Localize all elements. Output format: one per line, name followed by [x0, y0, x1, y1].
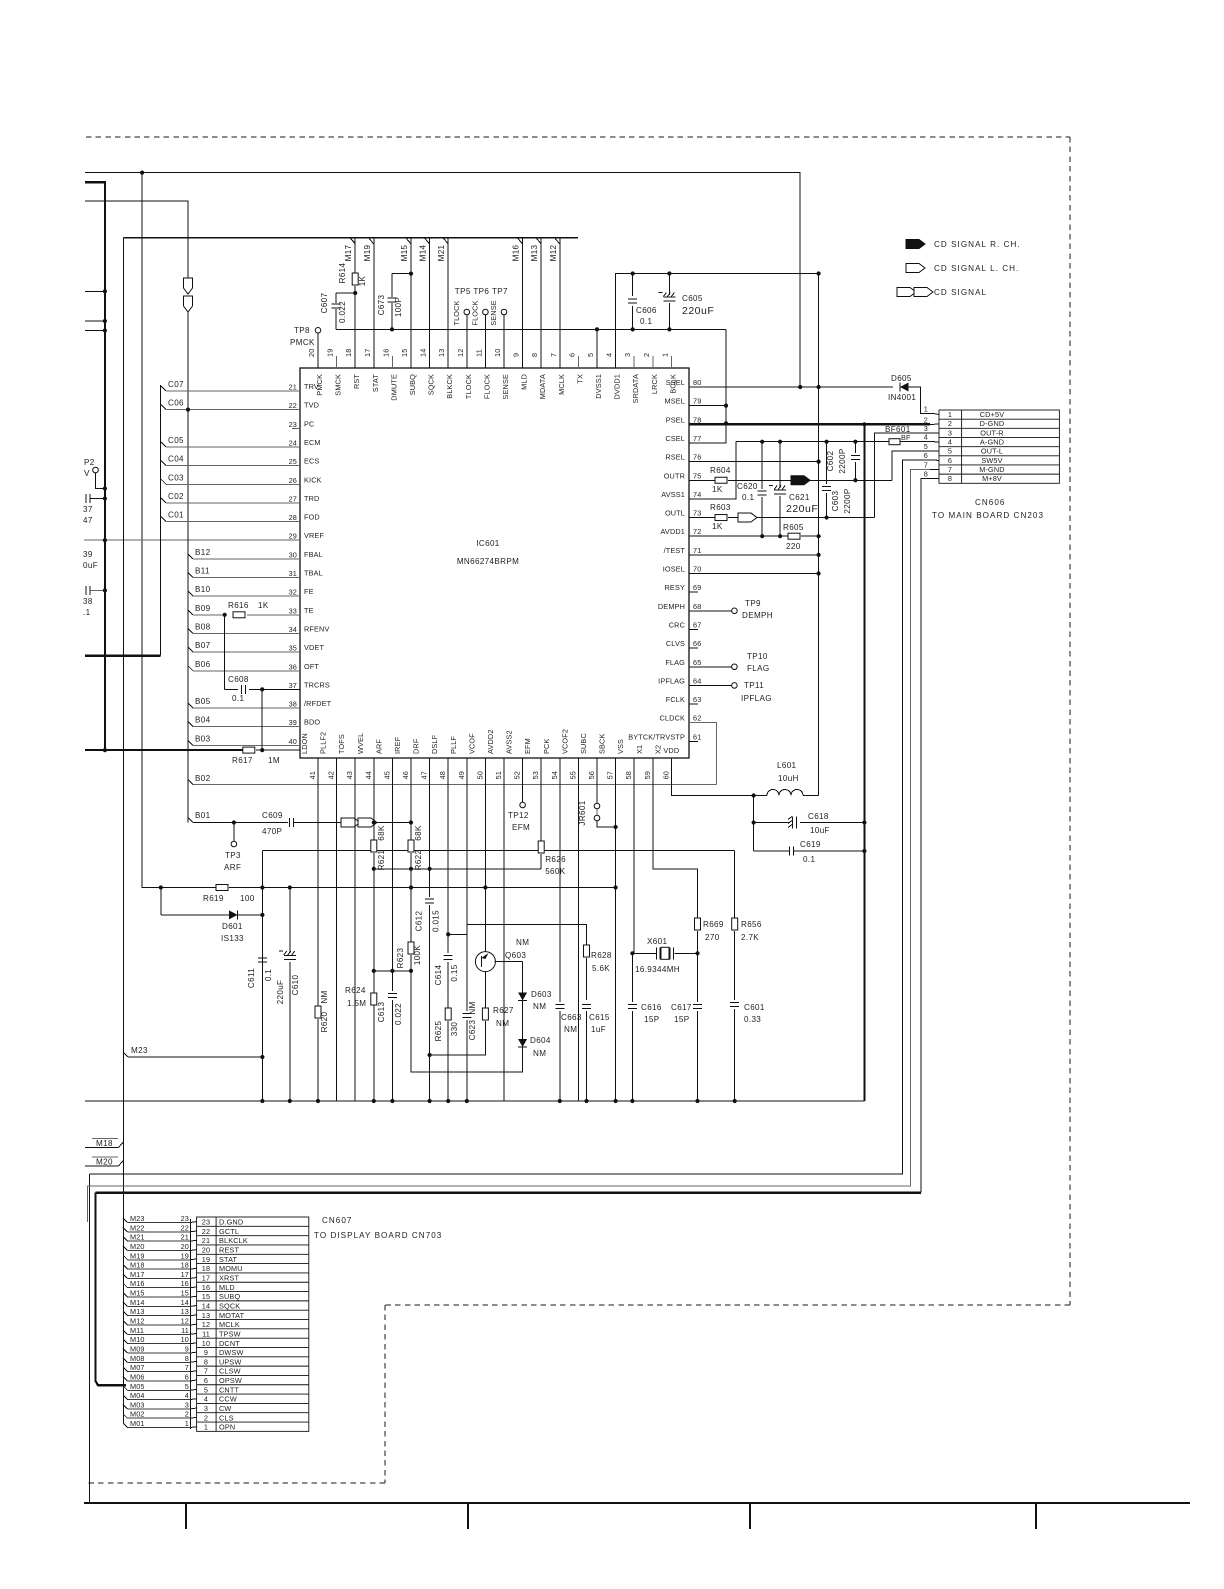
svg-text:C618: C618	[808, 812, 829, 821]
wire stub left 3	[85, 330, 105, 332]
diode D603 NM	[522, 962, 524, 991]
resistor R617 1M	[243, 747, 255, 753]
wire B10 to IC pin 32	[188, 591, 193, 596]
ground rail	[85, 1100, 865, 1102]
svg-text:TP6: TP6	[473, 287, 489, 296]
wire vertical to R619 line	[142, 173, 161, 888]
svg-text:74: 74	[693, 490, 701, 499]
svg-text:M11: M11	[130, 1326, 144, 1335]
svg-text:TP11: TP11	[744, 681, 764, 690]
resistor R656 2.7K	[734, 851, 736, 918]
svg-text:35: 35	[289, 644, 297, 653]
svg-text:24: 24	[289, 438, 297, 447]
capacitor C609 470P	[290, 818, 294, 827]
svg-text:220uF: 220uF	[786, 503, 818, 515]
svg-text:D.GND: D.GND	[219, 1218, 243, 1227]
svg-text:CLS: CLS	[219, 1413, 234, 1422]
wire M14 to pin 14	[429, 238, 431, 368]
svg-text:47: 47	[83, 516, 93, 525]
svg-text:0.015: 0.015	[432, 910, 441, 932]
wire M04 to CN607 pin 4	[123, 1395, 128, 1400]
svg-text:5: 5	[586, 353, 595, 357]
capacitor C607 0.022	[336, 292, 355, 294]
title block divider 4	[1035, 1503, 1037, 1529]
node C608 to TRCRS junction	[260, 687, 264, 691]
svg-text:29: 29	[289, 532, 297, 541]
svg-text:AVDD2: AVDD2	[486, 729, 495, 754]
wire loop to D604 return	[411, 962, 523, 1072]
CD signal L arrow on OUTL	[738, 513, 757, 522]
svg-text:470P: 470P	[262, 827, 282, 836]
svg-text:MSEL: MSEL	[665, 397, 685, 406]
wire B01 line	[188, 818, 193, 823]
svg-text:10: 10	[181, 1335, 189, 1344]
svg-text:39: 39	[289, 718, 297, 727]
svg-text:PMCK: PMCK	[290, 338, 315, 347]
IC601 bottom pin stubs and numbers	[317, 758, 319, 768]
svg-text:5.6K: 5.6K	[592, 964, 610, 973]
svg-text:5: 5	[948, 447, 952, 456]
wire M12 to CN607 pin 12	[123, 1321, 128, 1326]
wire X2 pin59 jog to R669	[653, 768, 698, 918]
wire junction down to LDON line	[261, 689, 263, 750]
flags on M bus taps	[350, 238, 355, 244]
capacitor C611 0.1	[258, 958, 267, 962]
wire D601 branch vertical	[160, 888, 162, 915]
test point TP9 DEMPH on pin 68	[689, 610, 732, 612]
svg-text:TP9: TP9	[745, 599, 761, 608]
svg-text:M+8V: M+8V	[982, 474, 1002, 483]
wire B08 to IC pin 34	[188, 628, 193, 633]
CD signal arrows on B-bus	[184, 278, 193, 294]
wire M12 to pin 7	[559, 238, 561, 368]
wire M-bus horizontal (net D)	[124, 237, 579, 239]
svg-text:B07: B07	[195, 641, 211, 650]
svg-text:FLOCK: FLOCK	[470, 300, 479, 325]
svg-text:M23: M23	[130, 1214, 145, 1223]
svg-text:GCTL: GCTL	[219, 1227, 239, 1236]
svg-text:PC: PC	[304, 419, 314, 428]
IC601 right pin stubs and numbers	[689, 740, 698, 742]
svg-text:C05: C05	[168, 436, 184, 445]
svg-text:43: 43	[345, 771, 354, 779]
svg-text:27: 27	[289, 494, 297, 503]
test point TP3 ARF	[232, 820, 236, 824]
wire SW5V left vertical to page bottom	[89, 1174, 91, 1503]
svg-text:15: 15	[400, 349, 409, 357]
svg-text:D605: D605	[891, 374, 912, 383]
svg-text:VSS: VSS	[616, 739, 625, 754]
test point TP10 FLAG on pin 65	[689, 666, 732, 668]
svg-text:37: 37	[83, 505, 93, 514]
svg-text:73: 73	[693, 509, 701, 518]
svg-text:D603: D603	[531, 990, 552, 999]
svg-text:X601: X601	[647, 937, 667, 946]
svg-text:M12: M12	[549, 244, 558, 261]
capacitor C603 2200P	[825, 440, 829, 444]
svg-text:6: 6	[948, 456, 952, 465]
svg-text:1: 1	[948, 410, 952, 419]
svg-text:M10: M10	[130, 1335, 145, 1344]
svg-text:32: 32	[289, 588, 297, 597]
wire C06 to IC pin 22	[161, 405, 166, 410]
svg-text:M06: M06	[130, 1372, 145, 1381]
svg-text:47: 47	[420, 771, 429, 779]
svg-text:2200P: 2200P	[843, 488, 852, 513]
resistor R626 560K on pin53 column	[540, 768, 542, 841]
svg-text:C613: C613	[377, 1001, 386, 1022]
svg-text:FE: FE	[304, 587, 314, 596]
svg-text:2200P: 2200P	[838, 448, 847, 473]
svg-text:7: 7	[924, 460, 928, 469]
svg-text:2.7K: 2.7K	[741, 933, 759, 942]
wire M21 to CN607 pin 21	[123, 1237, 128, 1242]
resistor R603 1K on OUTL	[689, 517, 715, 519]
resistor R620 NM on pin41 column	[317, 768, 319, 1006]
svg-text:PSEL: PSEL	[666, 415, 685, 424]
wire bold horizontal to C-bus	[85, 655, 161, 657]
svg-text:M19: M19	[130, 1251, 145, 1260]
svg-text:OUTR: OUTR	[664, 471, 685, 480]
svg-text:31: 31	[289, 569, 297, 578]
svg-text:M09: M09	[130, 1344, 145, 1353]
wire OUT-L riser to CN606 pin 5	[892, 451, 930, 480]
svg-text:CN607: CN607	[322, 1216, 352, 1225]
diode D604 NM	[522, 1000, 524, 1038]
svg-text:IPFLAG: IPFLAG	[658, 676, 685, 685]
wire net A +5V feed top	[85, 173, 800, 387]
wire B12 to IC pin 30	[188, 554, 193, 559]
svg-text:WVEL: WVEL	[356, 733, 365, 754]
capacitor C610 220uF electrolytic	[289, 888, 291, 954]
svg-text:D604: D604	[530, 1036, 551, 1045]
svg-text:DWSW: DWSW	[219, 1348, 244, 1357]
svg-text:MLD: MLD	[520, 374, 529, 390]
svg-text:SSEL: SSEL	[666, 378, 685, 387]
resistor R669 270	[695, 918, 701, 930]
svg-text:71: 71	[693, 546, 701, 555]
svg-text:80: 80	[693, 378, 701, 387]
svg-text:1K: 1K	[358, 275, 367, 286]
svg-text:1K: 1K	[712, 522, 723, 531]
svg-text:C607: C607	[320, 292, 329, 313]
capacitor C615 1uF	[582, 1005, 591, 1009]
svg-text:28: 28	[289, 513, 297, 522]
svg-text:R622: R622	[414, 849, 423, 870]
svg-text:C07: C07	[168, 380, 184, 389]
wire +5V node down to C618/C619	[753, 796, 755, 852]
svg-text:B11: B11	[195, 567, 210, 576]
svg-text:C01: C01	[168, 511, 184, 520]
node pin80 riser junction	[798, 385, 802, 389]
svg-text:TE: TE	[304, 606, 314, 615]
svg-text:17: 17	[181, 1270, 189, 1279]
svg-text:DSLF: DSLF	[430, 734, 439, 754]
svg-text:5: 5	[204, 1385, 208, 1394]
svg-text:TRV: TRV	[304, 382, 319, 391]
svg-text:NM: NM	[533, 1002, 546, 1011]
svg-text:C617: C617	[671, 1003, 692, 1012]
svg-text:ARF: ARF	[374, 739, 383, 754]
capacitor C638 0.1 (clipped at page edge)	[86, 586, 90, 595]
svg-text:A-GND: A-GND	[980, 437, 1004, 446]
svg-text:15P: 15P	[674, 1015, 689, 1024]
capacitor C618 10uF electrolytic	[752, 820, 756, 824]
resistor R625 330	[445, 1008, 451, 1020]
wire M15 to CN607 pin 15	[123, 1293, 128, 1298]
dashed page border top	[86, 136, 1070, 138]
svg-text:VCOF2: VCOF2	[560, 729, 569, 754]
svg-text:C615: C615	[589, 1013, 610, 1022]
svg-text:R621: R621	[377, 849, 386, 870]
svg-text:MCLK: MCLK	[557, 374, 566, 395]
svg-text:OUTL: OUTL	[665, 509, 685, 518]
wire M07 to CN607 pin 7	[123, 1367, 128, 1372]
resistor R621 68K on pin44 column	[373, 768, 375, 840]
svg-text:C611: C611	[247, 968, 256, 988]
IC601 left pin stubs and numbers	[292, 390, 300, 392]
svg-text:79: 79	[693, 397, 701, 406]
svg-text:10: 10	[202, 1339, 210, 1348]
IC U601 body MN66274BRPM	[300, 368, 689, 758]
wire stub left 2	[85, 320, 105, 322]
svg-text:72: 72	[693, 527, 701, 536]
svg-text:RST: RST	[352, 374, 361, 389]
svg-text:SW5V: SW5V	[981, 456, 1002, 465]
svg-text:IOSEL: IOSEL	[663, 565, 685, 574]
svg-text:62: 62	[693, 714, 701, 723]
svg-text:M02: M02	[130, 1410, 145, 1419]
capacitor C621 220uF electrolytic	[778, 440, 782, 444]
wire M01 to CN607 pin 1	[123, 1423, 128, 1428]
svg-text:FBAL: FBAL	[304, 550, 323, 559]
wire pin49 jog to R628	[467, 925, 587, 945]
svg-text:R620: R620	[320, 1011, 329, 1032]
svg-text:M04: M04	[130, 1391, 145, 1400]
svg-text:OPN: OPN	[219, 1423, 235, 1432]
svg-text:TP3: TP3	[225, 851, 241, 860]
svg-text:SUBC: SUBC	[579, 733, 588, 754]
svg-text:14: 14	[181, 1298, 189, 1307]
svg-text:M13: M13	[530, 244, 539, 261]
svg-text:26: 26	[289, 476, 297, 485]
svg-text:R623: R623	[396, 947, 405, 968]
svg-text:41: 41	[308, 771, 317, 779]
svg-text:MCLK: MCLK	[219, 1320, 240, 1329]
svg-text:CCW: CCW	[219, 1395, 237, 1404]
svg-text:D-GND: D-GND	[980, 419, 1005, 428]
svg-text:C04: C04	[168, 455, 184, 464]
capacitor C637 0.047 (clipped at page edge)	[86, 494, 90, 503]
legend CD SIGNAL L arrow	[906, 264, 925, 273]
svg-text:39: 39	[83, 550, 93, 559]
CD signal R arrow on OUTR	[791, 476, 810, 485]
svg-text:R625: R625	[434, 1020, 443, 1041]
svg-text:12: 12	[202, 1320, 210, 1329]
svg-text:SENSE: SENSE	[489, 300, 498, 326]
svg-text:FLAG: FLAG	[665, 658, 685, 667]
svg-text:BLKCK: BLKCK	[445, 374, 454, 399]
svg-text:1: 1	[204, 1423, 208, 1432]
svg-text:0.022: 0.022	[338, 301, 347, 323]
wire pin 5 DVSS1 to ground line	[596, 329, 598, 368]
svg-text:C605: C605	[682, 294, 703, 303]
svg-text:DRF: DRF	[412, 738, 421, 754]
svg-text:13: 13	[437, 349, 446, 357]
svg-text:CW: CW	[219, 1404, 231, 1413]
svg-text:100: 100	[240, 894, 255, 903]
wire VREF line to page edge (C639)	[84, 539, 300, 541]
svg-text:TRD: TRD	[304, 494, 319, 503]
svg-text:OFT: OFT	[304, 662, 319, 671]
svg-text:C608: C608	[228, 675, 249, 684]
svg-text:C623: C623	[468, 1019, 477, 1040]
bold D-GND vertical	[863, 424, 865, 1101]
dashed page border bottom-right segment	[385, 1304, 1070, 1306]
wire C05 to IC pin 24	[161, 442, 166, 447]
wire B07 to IC pin 35	[188, 647, 193, 652]
svg-text:TRCRS: TRCRS	[304, 680, 330, 689]
svg-text:M12: M12	[130, 1317, 145, 1326]
svg-text:2: 2	[642, 353, 651, 357]
wire /TEST to +5V	[689, 554, 819, 556]
svg-text:23: 23	[289, 420, 297, 429]
svg-text:/RFDET: /RFDET	[304, 699, 332, 708]
svg-text:C02: C02	[168, 492, 184, 501]
wire C01 to IC pin 28	[161, 517, 166, 522]
svg-text:23: 23	[181, 1214, 189, 1223]
svg-text:60: 60	[661, 771, 670, 779]
svg-text:21: 21	[289, 383, 297, 392]
svg-text:M18: M18	[96, 1139, 113, 1148]
svg-text:B01: B01	[195, 811, 211, 820]
wire M03 to CN607 pin 3	[123, 1404, 128, 1409]
svg-text:2: 2	[204, 1413, 208, 1422]
svg-text:M22: M22	[130, 1223, 145, 1232]
svg-text:52: 52	[513, 771, 522, 779]
svg-text:220: 220	[786, 542, 801, 551]
node pin46 column at R619 line	[409, 885, 413, 889]
svg-text:3: 3	[185, 1400, 189, 1409]
svg-text:61: 61	[693, 732, 701, 741]
svg-text:CLVS: CLVS	[666, 639, 685, 648]
svg-text:50: 50	[475, 771, 484, 779]
capacitor C608 0.1	[225, 688, 238, 690]
svg-text:7: 7	[204, 1367, 208, 1376]
svg-text:63: 63	[693, 695, 701, 704]
wire M10 to CN607 pin 10	[123, 1339, 128, 1344]
svg-text:M20: M20	[130, 1242, 145, 1251]
svg-text:18: 18	[344, 349, 353, 357]
svg-text:16: 16	[381, 349, 390, 357]
svg-text:5: 5	[185, 1382, 189, 1391]
svg-text:IPFLAG: IPFLAG	[741, 694, 772, 703]
resistor R619 100	[216, 885, 228, 891]
legend CD SIGNAL double arrow	[897, 288, 916, 297]
svg-text:58: 58	[624, 771, 633, 779]
svg-text:R669: R669	[703, 920, 724, 929]
svg-text:1: 1	[185, 1419, 189, 1428]
wire C02 to IC pin 27	[161, 498, 166, 503]
wire CLDCK gray riser	[689, 723, 717, 785]
svg-text:MOMU: MOMU	[219, 1264, 243, 1273]
wire M23 branch	[124, 1053, 129, 1058]
svg-text:CD SIGNAL L. CH.: CD SIGNAL L. CH.	[934, 264, 1019, 273]
svg-text:42: 42	[327, 771, 336, 779]
svg-text:OUT-L: OUT-L	[981, 447, 1003, 456]
svg-text:1K: 1K	[712, 485, 723, 494]
wire R621/R622/R626 bottoms	[374, 868, 541, 870]
svg-text:11: 11	[202, 1329, 210, 1338]
wire M06 to CN607 pin 6	[123, 1376, 128, 1381]
svg-text:SQCK: SQCK	[427, 374, 436, 395]
svg-text:M14: M14	[130, 1298, 145, 1307]
diode D601 IS133	[161, 914, 229, 916]
svg-text:REST: REST	[219, 1246, 239, 1255]
svg-text:BLKCLK: BLKCLK	[219, 1236, 248, 1245]
resistor R616 1K on B09 line	[233, 612, 245, 618]
wire D605 to CN606 pin 1	[908, 387, 930, 414]
wire B09 branch down to C608	[224, 615, 226, 690]
svg-text:STAT: STAT	[219, 1255, 238, 1264]
svg-text:IS133: IS133	[221, 934, 244, 943]
wire M13 to CN607 pin 13	[123, 1311, 128, 1316]
svg-text:M19: M19	[363, 244, 372, 261]
resistor R624 1.5M in pin44 column	[371, 993, 377, 1005]
svg-text:CLDCK: CLDCK	[660, 714, 685, 723]
resistor R614 1K	[352, 273, 358, 285]
wire VDD pin60 to L601	[671, 768, 753, 796]
wire CN606 pin 6 SW5V down-left	[90, 460, 931, 1174]
svg-text:8: 8	[204, 1357, 208, 1366]
resistor R604 1K on OUTR	[689, 479, 715, 481]
wire M23 to CN607 pin 23	[123, 1218, 128, 1223]
AVSS rail	[736, 441, 889, 443]
svg-text:M01: M01	[130, 1419, 145, 1428]
svg-text:270: 270	[705, 933, 720, 942]
wire net B LD power left entry	[85, 182, 105, 750]
node D601 branch	[260, 885, 264, 889]
svg-text:17: 17	[363, 349, 372, 357]
dashed page border bottom-left segment	[86, 1482, 385, 1484]
capacitor C663 NM on pin54 column	[559, 768, 561, 1002]
bold D-GND line from PSEL row	[689, 423, 930, 425]
svg-text:2: 2	[185, 1410, 189, 1419]
wire M14 to CN607 pin 14	[123, 1302, 128, 1307]
svg-text:100K: 100K	[413, 945, 422, 966]
svg-text:RESY: RESY	[665, 583, 685, 592]
svg-text:SQCK: SQCK	[219, 1301, 240, 1310]
svg-text:B06: B06	[195, 660, 211, 669]
svg-text:1M: 1M	[268, 756, 280, 765]
wire AVSS1 pin 74 to AVSS rail	[689, 442, 736, 499]
wire stub left 1	[85, 290, 105, 292]
wire pin49 column to C623	[466, 768, 468, 934]
node wire A to R619 column	[140, 171, 144, 175]
svg-text:66: 66	[693, 639, 701, 648]
wire M18 to CN607 pin 18	[123, 1265, 128, 1270]
svg-text:20: 20	[181, 1242, 189, 1251]
svg-text:IREF: IREF	[393, 736, 402, 754]
svg-text:TO DISPLAY BOARD CN703: TO DISPLAY BOARD CN703	[314, 1231, 442, 1240]
svg-text:M15: M15	[130, 1289, 145, 1298]
svg-text:38: 38	[83, 597, 93, 606]
svg-text:M20: M20	[96, 1158, 113, 1167]
svg-text:1.5M: 1.5M	[347, 999, 366, 1008]
svg-text:XRST: XRST	[219, 1274, 239, 1283]
svg-text:ECM: ECM	[304, 438, 321, 447]
svg-text:0.33: 0.33	[744, 1015, 761, 1024]
